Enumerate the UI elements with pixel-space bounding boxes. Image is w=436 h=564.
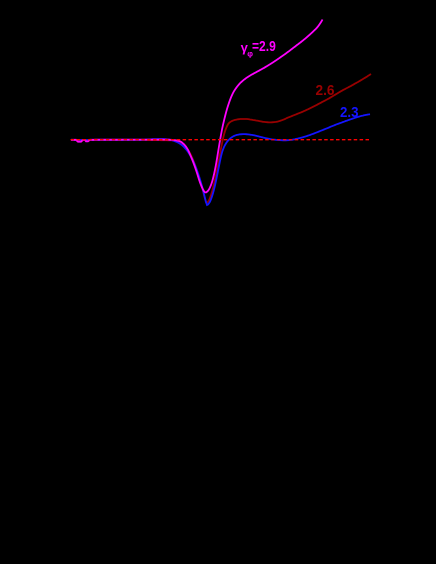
svg-text:=2.9: =2.9 — [252, 39, 276, 55]
svg-text:2.6: 2.6 — [316, 83, 335, 99]
svg-text:2.3: 2.3 — [340, 105, 359, 121]
